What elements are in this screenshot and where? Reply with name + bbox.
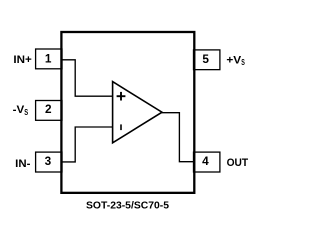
svg-text:S: S — [241, 57, 245, 67]
wire op-amp OUT to pin4 — [161, 113, 194, 162]
pin 2 box — [36, 101, 62, 121]
svg-text:SOT-23-5/SC70-5: SOT-23-5/SC70-5 — [86, 201, 169, 212]
pin 5 box — [194, 50, 220, 70]
pin 1 box — [36, 49, 62, 69]
svg-text:+V: +V — [226, 54, 241, 66]
label -Vs (pin 2) — [13, 104, 29, 117]
svg-text:-V: -V — [13, 104, 25, 116]
pin 4 box — [194, 152, 220, 172]
svg-text:S: S — [24, 107, 28, 117]
svg-text:IN+: IN+ — [13, 54, 31, 66]
svg-text:2: 2 — [45, 102, 52, 116]
pin 3 box — [36, 152, 62, 172]
label +Vs (pin 5) — [226, 54, 245, 67]
op-amp + input mark — [117, 92, 126, 101]
package outline U1 SOT-23-5/SC70-5 — [61, 32, 194, 193]
svg-text:4: 4 — [202, 154, 209, 168]
op-amp A1 triangle — [113, 82, 162, 143]
wire pin1 to op-amp +IN — [62, 60, 113, 96]
svg-text:IN-: IN- — [15, 158, 31, 170]
svg-text:OUT: OUT — [227, 157, 249, 169]
svg-text:5: 5 — [202, 52, 209, 66]
svg-text:1: 1 — [45, 51, 52, 65]
wire pin3 to op-amp -IN — [62, 127, 113, 162]
op-amp - input mark (vertical tick) — [120, 124, 122, 130]
svg-text:3: 3 — [45, 154, 52, 168]
